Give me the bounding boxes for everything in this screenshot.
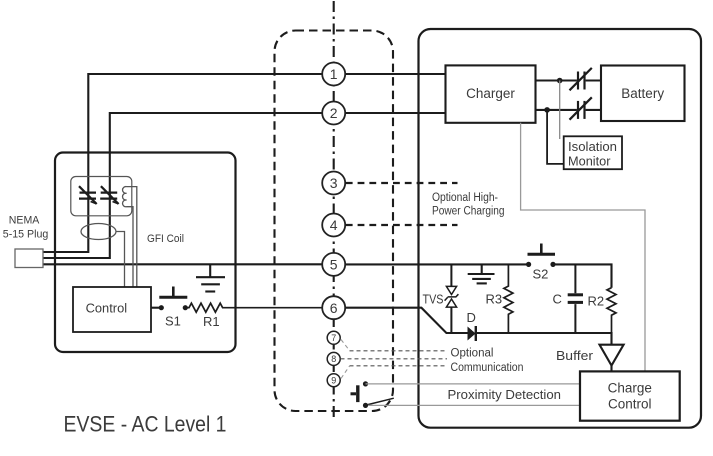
buffer amplifier (600, 345, 624, 366)
wire pilot (circle6 to vehicle network) (345, 308, 467, 333)
pin circle 4 (322, 214, 345, 237)
svg-text:Communication: Communication (451, 362, 524, 374)
svg-text:Battery: Battery (621, 86, 664, 101)
svg-text:Optional: Optional (451, 348, 494, 360)
svg-text:1: 1 (330, 66, 338, 82)
GFI sensing coil ellipse (81, 224, 116, 240)
svg-text:Control: Control (86, 300, 128, 315)
pin circle 7 (327, 331, 340, 344)
optional high-power dashed wire pin4 (346, 224, 458, 226)
wire charger to battery (bottom) (536, 109, 602, 111)
battery contactor top (570, 68, 592, 90)
switch S1 (pushbutton) (151, 287, 188, 311)
pin circle 6 (322, 296, 345, 319)
wire L1 hot (plug to charger via contactor) (43, 74, 446, 252)
junction node top (557, 78, 563, 84)
svg-text:S1: S1 (165, 314, 181, 329)
svg-text:R2: R2 (588, 294, 605, 309)
connector dashed boundary (275, 31, 394, 412)
svg-text:Control: Control (608, 397, 652, 412)
svg-text:8: 8 (331, 354, 336, 364)
pin circle 1 (322, 63, 345, 86)
svg-text:NEMA: NEMA (9, 215, 40, 227)
svg-text:5-15 Plug: 5-15 Plug (3, 229, 49, 241)
pin circle 8 (327, 352, 340, 365)
svg-text:D: D (467, 310, 476, 325)
proximity wires to charge control (366, 383, 581, 385)
svg-text:C: C (553, 292, 562, 307)
capacitor C (568, 264, 583, 333)
optional high-power dashed wire pin3 (346, 182, 458, 184)
svg-text:Charge: Charge (608, 381, 652, 396)
vehicle enclosure box (419, 29, 702, 428)
TVS diode (445, 264, 459, 333)
svg-text:Buffer: Buffer (556, 348, 594, 363)
isolation monitor sense wire (gray) (559, 81, 561, 140)
charge control box (580, 371, 680, 420)
diode D (468, 326, 612, 345)
contactor contact K1b (on L2) (100, 186, 118, 204)
switch S2 (pushbutton) (526, 244, 556, 268)
resistor R3 (504, 264, 513, 333)
svg-text:S2: S2 (533, 267, 549, 282)
svg-text:5: 5 (330, 257, 338, 273)
vehicle ground symbol (468, 264, 495, 283)
resistor R2 (607, 288, 616, 333)
EVSE ground symbol (196, 264, 225, 291)
svg-text:Monitor: Monitor (568, 154, 611, 169)
wire S2 to C and R2 (553, 264, 612, 287)
proximity switch pushbutton (351, 381, 394, 408)
optional communication dashed wires pins 7-9 (341, 340, 448, 379)
isolation monitor wire (black) (547, 110, 564, 164)
svg-text:9: 9 (331, 376, 336, 386)
svg-text:6: 6 (330, 300, 338, 316)
EVSE enclosure box (55, 153, 236, 353)
svg-text:R3: R3 (486, 292, 503, 307)
GFI contactor enclosure (71, 177, 132, 216)
charger box (446, 65, 536, 122)
svg-text:4: 4 (330, 217, 338, 233)
battery box (601, 66, 685, 122)
svg-text:3: 3 (330, 175, 338, 191)
pin circle 5 (322, 253, 345, 276)
pin circle 3 (322, 172, 345, 195)
charger to charge-control wire (gray) (521, 123, 645, 372)
NEMA 5-15 plug body (15, 249, 43, 268)
svg-text:Optional High-: Optional High- (432, 192, 498, 204)
svg-text:2: 2 (330, 105, 338, 121)
wire charger to battery (top) (536, 79, 602, 81)
resistor R1 (185, 303, 322, 312)
wire ground (plug to vehicle) (43, 263, 529, 265)
battery contactor bottom (570, 97, 592, 119)
svg-text:GFI Coil: GFI Coil (147, 233, 184, 245)
svg-text:7: 7 (331, 333, 336, 343)
svg-text:R1: R1 (203, 314, 220, 329)
control box (73, 287, 151, 332)
isolation monitor box (564, 136, 622, 169)
pin circle 2 (322, 102, 345, 125)
svg-text:EVSE - AC Level 1: EVSE - AC Level 1 (64, 412, 227, 437)
pin circle 9 (327, 374, 340, 387)
centerline (connector interface dash-dot) (333, 1, 335, 421)
junction node bottom (544, 107, 550, 113)
svg-text:Charger: Charger (466, 86, 515, 101)
wire L2 neutral (plug to charger) (43, 113, 446, 258)
svg-text:TVS: TVS (423, 292, 444, 306)
svg-text:Isolation: Isolation (568, 139, 617, 154)
contactor coil (123, 187, 137, 287)
contactor contact K1a (on L1) (79, 186, 97, 204)
svg-text:Power Charging: Power Charging (432, 206, 505, 218)
svg-text:Proximity Detection: Proximity Detection (448, 388, 562, 402)
wire from sensing coil to control (116, 232, 125, 288)
